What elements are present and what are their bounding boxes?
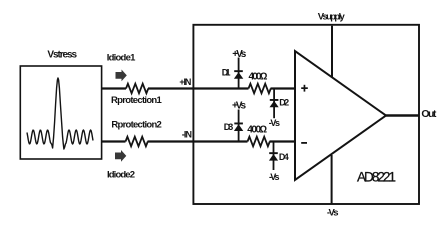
svg-text:Idiode1: Idiode1	[107, 53, 136, 64]
svg-text:Rprotection2: Rprotection2	[111, 120, 161, 131]
svg-text:D1: D1	[222, 68, 231, 78]
svg-text:Vstress: Vstress	[47, 50, 77, 61]
svg-text:-Vs: -Vs	[269, 118, 280, 128]
svg-text:400Ω: 400Ω	[249, 72, 268, 83]
svg-text:400Ω: 400Ω	[247, 124, 267, 135]
svg-text:Idiode2: Idiode2	[107, 170, 135, 181]
svg-text:+Vs: +Vs	[232, 101, 246, 112]
svg-text:Rprotection1: Rprotection1	[111, 95, 163, 106]
svg-text:D3: D3	[224, 122, 234, 132]
svg-text:D4: D4	[279, 152, 289, 162]
svg-text:-Vs: -Vs	[327, 208, 339, 219]
svg-text:+IN: +IN	[179, 77, 191, 87]
svg-text:-IN: -IN	[182, 130, 192, 140]
svg-text:Vsupply: Vsupply	[318, 12, 346, 23]
svg-text:-Vs: -Vs	[269, 172, 280, 182]
svg-text:D2: D2	[279, 98, 289, 108]
svg-text:AD8221: AD8221	[357, 170, 396, 185]
svg-text:+Vs: +Vs	[232, 49, 246, 60]
svg-text:Out: Out	[421, 108, 437, 120]
